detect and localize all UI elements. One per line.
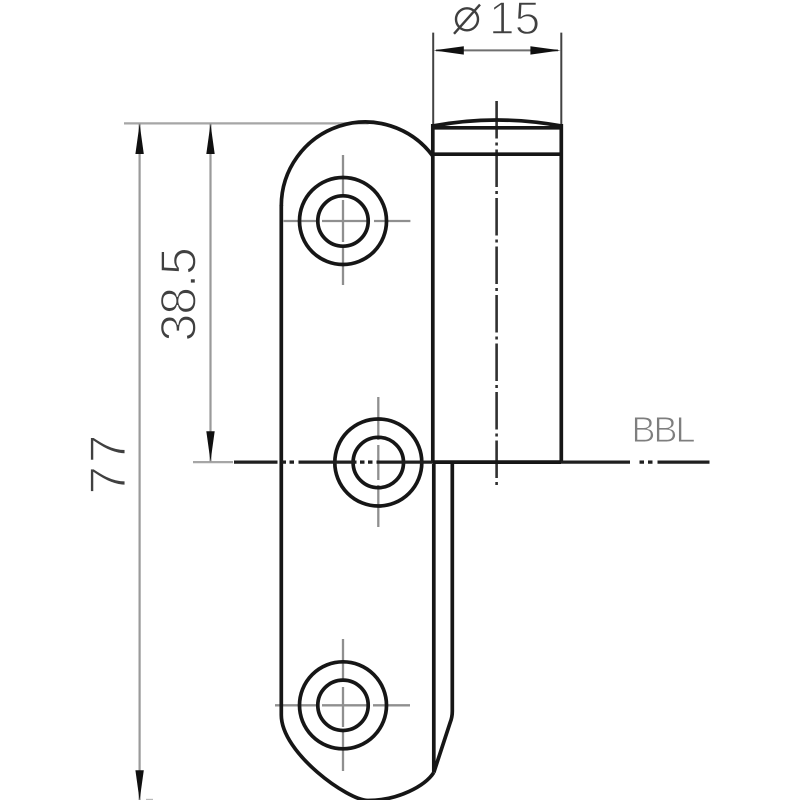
barrel axis centerline	[495, 101, 498, 486]
svg-text:BBL: BBL	[632, 409, 695, 450]
arrowhead dia-15 left	[434, 46, 464, 54]
diameter symbol	[454, 5, 480, 34]
pin dome arc	[433, 120, 562, 126]
arrowhead 77 bottom	[135, 770, 143, 800]
hole H2 outer circle	[335, 419, 422, 506]
svg-text:15: 15	[489, 0, 540, 44]
hole H1 inner circle	[318, 196, 368, 246]
arrowhead 38.5 bottom	[206, 431, 214, 461]
BBL phantom line	[234, 460, 710, 463]
barrel top band line	[433, 152, 562, 156]
hole H3 outer circle	[300, 662, 387, 749]
extension line top (left dims)	[124, 122, 369, 124]
dimension line 38.5	[209, 123, 211, 461]
dimension line 77	[139, 123, 141, 800]
plate lower-right edge and chamfer	[434, 464, 453, 773]
plate top arc	[281, 122, 433, 206]
dia-15 extension line left	[432, 33, 434, 124]
hole H1 outer circle	[300, 178, 387, 265]
pin dome chord	[433, 126, 562, 130]
plate bottom arc	[281, 715, 434, 800]
hole H1 centerline vertical	[342, 155, 344, 285]
hole H3 inner circle	[318, 680, 368, 730]
hole H3 centerline vertical	[342, 639, 344, 771]
plate left edge	[279, 205, 283, 715]
extension line bottom (left)	[146, 799, 153, 800]
arrowhead 38.5 top	[206, 124, 214, 154]
barrel right edge	[559, 124, 563, 462]
arrowhead 77 top	[135, 124, 143, 154]
barrel bottom edge	[433, 460, 561, 464]
plate fold line (inner)	[432, 464, 436, 772]
svg-text:38.5: 38.5	[151, 248, 207, 341]
hole H2 inner circle	[353, 437, 403, 487]
hole H2 centerline vertical	[377, 397, 379, 527]
dia-15 dimension line	[436, 49, 558, 51]
extension line at BBL level (left)	[193, 461, 233, 463]
hole H3 centerline horizontal	[275, 704, 410, 706]
arrowhead dia-15 right	[530, 46, 560, 54]
svg-text:77: 77	[80, 432, 137, 495]
barrel left edge	[431, 124, 435, 462]
dia-15 extension line right	[560, 33, 562, 124]
hole H1 centerline horizontal	[284, 220, 411, 222]
